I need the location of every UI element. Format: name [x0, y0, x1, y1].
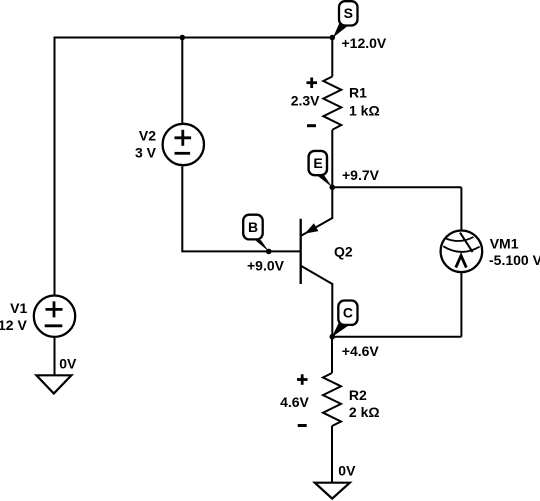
wire V1 to ground [54, 338, 56, 376]
node junction V2 top [180, 35, 186, 41]
wire base horizontal [181, 250, 300, 252]
node C label [332, 301, 358, 338]
wire C to R2 [331, 337, 333, 373]
label V2 value [135, 128, 157, 161]
svg-text:+9.0V: +9.0V [247, 257, 285, 273]
wire S to R1 [331, 38, 333, 77]
source V1 [34, 296, 75, 337]
svg-text:2.3V: 2.3V [291, 93, 320, 109]
wire V2 lower [181, 166, 183, 251]
node B label [243, 215, 269, 252]
svg-text:R2: R2 [349, 387, 367, 403]
node B junction dot [266, 249, 272, 255]
label V1 value [0, 300, 28, 333]
label R1 polarity plus [307, 78, 318, 89]
label R1 value [349, 85, 380, 119]
wire VM1 top [460, 187, 462, 230]
label R2 value [349, 387, 380, 420]
svg-text:1 kΩ: 1 kΩ [349, 102, 380, 118]
svg-text:B: B [248, 219, 258, 235]
svg-text:R1: R1 [349, 85, 367, 101]
voltmeter VM1 [441, 231, 483, 273]
svg-text:0V: 0V [59, 355, 77, 371]
label VM1 value [489, 236, 540, 269]
label R2 polarity plus [297, 374, 308, 385]
svg-text:C: C [343, 305, 353, 321]
svg-text:12 V: 12 V [0, 317, 27, 333]
node E label [309, 151, 333, 188]
wire V2 upper [181, 38, 183, 124]
ground bottom [315, 483, 350, 499]
svg-text:3 V: 3 V [135, 145, 157, 161]
transistor Q2 [301, 187, 333, 336]
label R1 polarity minus [307, 124, 316, 127]
svg-text:E: E [313, 155, 322, 171]
node C junction dot [330, 334, 336, 340]
node S label [333, 1, 358, 37]
svg-text:+12.0V: +12.0V [342, 35, 387, 51]
svg-text:+9.7V: +9.7V [342, 167, 380, 183]
wire VM1 bottom [460, 273, 462, 337]
svg-text:-5.100 V: -5.100 V [489, 252, 540, 268]
node S junction dot [330, 35, 336, 41]
wire E to VM1 horizontal [332, 186, 461, 188]
resistor R2 [323, 373, 341, 426]
svg-text:+4.6V: +4.6V [342, 343, 380, 359]
svg-text:2 kΩ: 2 kΩ [349, 404, 380, 420]
wire left vertical [54, 37, 56, 296]
node E junction dot [330, 185, 336, 191]
ground left [36, 375, 71, 393]
svg-text:0V: 0V [338, 462, 356, 478]
wire top horizontal [55, 37, 333, 39]
resistor R1 [323, 77, 341, 130]
svg-text:S: S [344, 5, 353, 21]
wire VM1 to C horizontal [332, 336, 461, 338]
svg-text:Q2: Q2 [334, 244, 353, 260]
svg-text:VM1: VM1 [490, 236, 519, 252]
svg-text:V1: V1 [10, 300, 27, 316]
wire R2 to ground [331, 426, 333, 483]
wire R1 to E [331, 130, 333, 188]
svg-text:4.6V: 4.6V [280, 394, 309, 410]
label R2 polarity minus [298, 424, 307, 427]
svg-text:V2: V2 [139, 128, 156, 144]
source V2 [163, 124, 204, 165]
